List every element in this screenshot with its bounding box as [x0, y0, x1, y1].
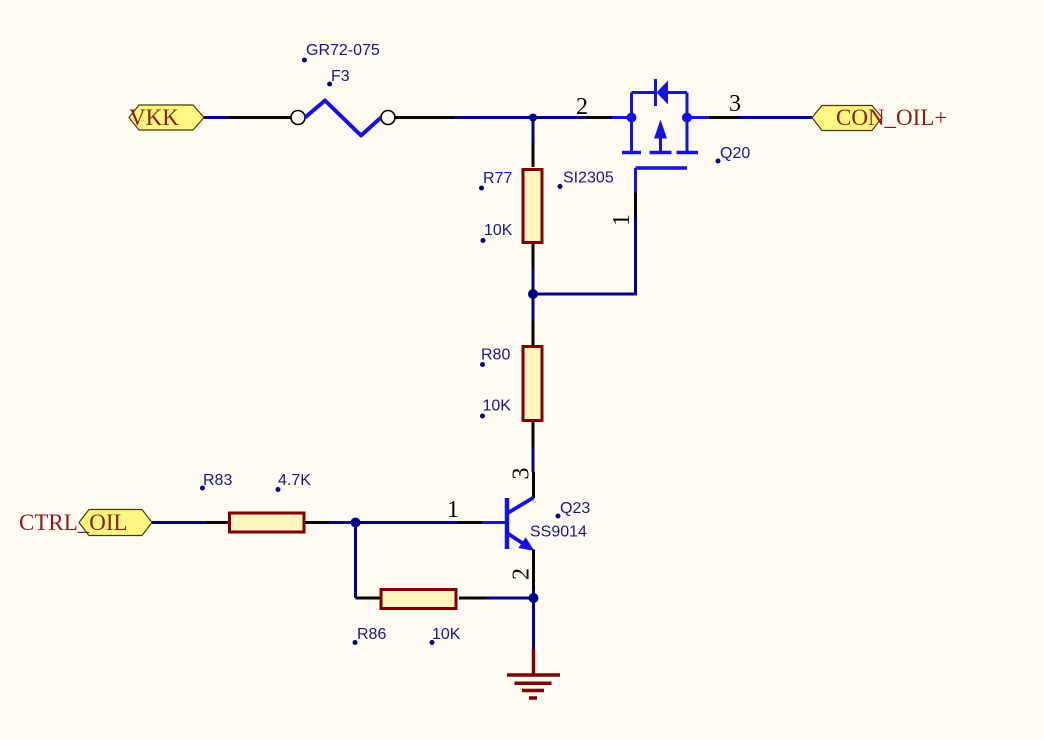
label GR72-075	[302, 42, 380, 63]
label R77	[479, 170, 512, 191]
svg-text:2: 2	[576, 94, 588, 120]
wire R77 bottom pin	[532, 244, 535, 269]
label 4.7K	[276, 472, 312, 492]
wire R86 left pin	[356, 597, 381, 600]
svg-text:1: 1	[609, 214, 635, 226]
svg-text:10K: 10K	[484, 222, 513, 239]
junction dot gate node	[528, 289, 538, 299]
wire pin 1 of mosfet (gate pin)	[634, 193, 637, 218]
svg-text:SI2305: SI2305	[563, 170, 614, 187]
svg-text:CTRL_OIL: CTRL_OIL	[19, 510, 128, 535]
svg-text:3: 3	[509, 468, 535, 480]
svg-text:4.7K: 4.7K	[278, 472, 311, 489]
transistor Q20 SI2305 mosfet	[612, 79, 709, 193]
wire R86 right pin	[459, 597, 487, 600]
svg-text:SS9014: SS9014	[530, 524, 587, 541]
svg-text:CON_OIL+: CON_OIL+	[836, 105, 947, 130]
wire R80 to Q23	[532, 447, 535, 472]
wire Q23 base lead	[482, 521, 506, 524]
junction dot emitter node	[529, 593, 539, 603]
svg-text:1: 1	[447, 497, 459, 523]
svg-text:GR72-075: GR72-075	[306, 42, 380, 59]
ground	[507, 649, 560, 698]
label 10K (R80)	[480, 398, 511, 419]
svg-text:Q20: Q20	[720, 145, 750, 162]
svg-text:R77: R77	[483, 170, 512, 187]
wire VKK to fuse	[204, 116, 229, 119]
svg-text:VKK: VKK	[129, 105, 179, 130]
port CON_OIL+	[812, 105, 947, 131]
fuse F3	[291, 101, 395, 136]
svg-text:10K: 10K	[432, 626, 461, 643]
wire CTRL_OIL to R83	[152, 521, 206, 524]
label R80	[480, 347, 510, 368]
wire R77 to junction node	[532, 269, 535, 321]
wire to CON_OIL+	[740, 116, 812, 119]
wire fuse to junction to mosfet	[454, 116, 586, 119]
wire R83 left pin	[206, 521, 229, 524]
resistor R77	[523, 170, 542, 243]
wire mosfet pin 2	[586, 116, 612, 119]
wire R80 top pin	[532, 321, 535, 346]
wire Q23 base pin	[458, 521, 482, 524]
wire gate to junction	[533, 217, 636, 294]
wire Q23 collector pin 3	[532, 472, 535, 498]
port CTRL_OIL	[19, 510, 152, 536]
wire fuse left pin	[229, 116, 291, 119]
svg-text:3: 3	[729, 91, 741, 117]
wire R83 right pin	[304, 521, 329, 524]
label 10K (R86)	[430, 626, 461, 645]
label R86	[353, 626, 387, 645]
label SI2305	[558, 170, 614, 190]
svg-text:F3: F3	[331, 68, 350, 85]
transistor Q23 SS9014	[507, 498, 535, 552]
svg-text:R86: R86	[357, 626, 386, 643]
svg-text:R83: R83	[203, 472, 232, 489]
label Q23	[556, 500, 591, 519]
wire R80 bottom pin	[532, 421, 535, 447]
wire junction down to R77	[532, 118, 535, 144]
port VKK	[129, 105, 204, 130]
label R83	[200, 472, 232, 491]
svg-text:2: 2	[509, 568, 535, 580]
svg-text:10K: 10K	[483, 398, 512, 415]
wire R86 to emitter node	[487, 597, 534, 600]
junction dot base node	[351, 518, 361, 528]
wire R83 to base junction	[329, 521, 458, 524]
svg-text:R80: R80	[481, 347, 510, 364]
label F3	[327, 68, 350, 87]
wire R77 top pin	[532, 143, 535, 167]
svg-text:Q23: Q23	[560, 500, 590, 517]
resistor R83	[230, 513, 305, 532]
wire fuse right pin	[395, 116, 454, 119]
resistor R80	[523, 347, 542, 421]
resistor R86	[381, 590, 456, 609]
wire base junction down	[354, 523, 357, 599]
wire mosfet pin 3	[709, 116, 740, 119]
wire emitter to ground node	[532, 590, 535, 649]
wire Q23 emitter pin 2	[532, 550, 535, 591]
label 10K (R77)	[481, 222, 513, 243]
label Q20	[716, 145, 751, 164]
junction dot	[529, 114, 537, 122]
